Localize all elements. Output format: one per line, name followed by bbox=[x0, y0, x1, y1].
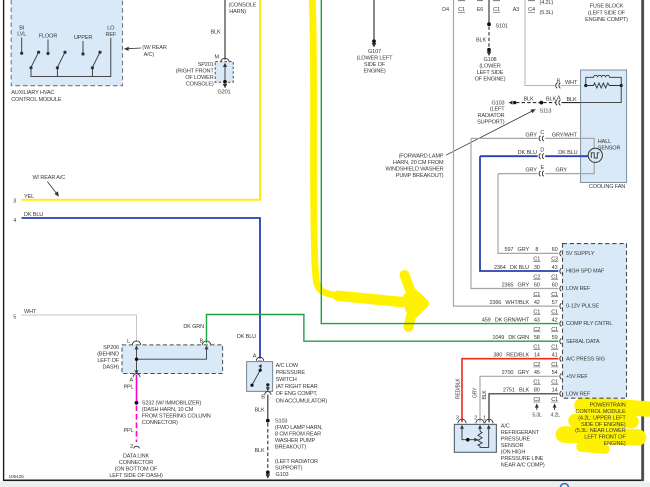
svg-text:A/C: A/C bbox=[501, 423, 510, 429]
wire BLK dashed S113 to connector A bbox=[543, 102, 556, 104]
svg-text:ENGINE COMPT): ENGINE COMPT) bbox=[585, 17, 628, 23]
svg-text:(4.2L): (4.2L) bbox=[540, 0, 554, 6]
wire WHT into fan box bbox=[561, 85, 586, 87]
wire GRY 2700 to sensor pin2 bbox=[480, 376, 558, 422]
svg-text:GRY/WHT: GRY/WHT bbox=[552, 132, 578, 138]
svg-text:60: 60 bbox=[552, 282, 558, 288]
svg-text:(AT RIGHT REAR: (AT RIGHT REAR bbox=[276, 384, 318, 390]
svg-text:(4.2L: UPPER LEFT: (4.2L: UPPER LEFT bbox=[578, 415, 626, 421]
svg-text:43: 43 bbox=[534, 317, 540, 323]
svg-text:2365 GRY: 2365 GRY bbox=[502, 282, 530, 288]
svg-text:LO: LO bbox=[107, 26, 115, 32]
svg-text:SWITCH: SWITCH bbox=[276, 377, 297, 383]
svg-text:14: 14 bbox=[534, 353, 540, 359]
svg-text:FLOOR: FLOOR bbox=[39, 34, 58, 40]
svg-text:DATA LINK: DATA LINK bbox=[123, 453, 150, 459]
svg-text:REF: REF bbox=[105, 32, 116, 38]
svg-text:41: 41 bbox=[552, 353, 558, 359]
ground G103 left arrow bbox=[513, 101, 516, 104]
svg-text:BLK: BLK bbox=[482, 390, 488, 400]
svg-text:G103: G103 bbox=[276, 472, 289, 478]
svg-text:SP201: SP201 bbox=[198, 62, 214, 68]
svg-text:PRESSURE: PRESSURE bbox=[501, 436, 531, 442]
svg-text:43: 43 bbox=[552, 265, 558, 271]
svg-text:5: 5 bbox=[13, 315, 16, 321]
svg-text:COMP RLY CNTRL: COMP RLY CNTRL bbox=[566, 321, 612, 327]
page bottom border bbox=[3, 479, 644, 481]
svg-text:(5.3L: NEAR LOWER: (5.3L: NEAR LOWER bbox=[575, 428, 626, 434]
svg-text:UPPER: UPPER bbox=[74, 35, 93, 41]
svg-text:BLK: BLK bbox=[476, 38, 486, 44]
svg-text:HALL: HALL bbox=[598, 139, 611, 145]
svg-text:(FORWARD LAMP: (FORWARD LAMP bbox=[399, 154, 444, 160]
wire PPL dashed S232 to DLC bbox=[136, 406, 138, 443]
svg-text:(ON BOTTOM OF: (ON BOTTOM OF bbox=[115, 466, 158, 472]
svg-text:OF ENGINE): OF ENGINE) bbox=[475, 77, 506, 83]
svg-text:PPL: PPL bbox=[123, 428, 133, 434]
svg-text:LEFT SIDE OF DASH): LEFT SIDE OF DASH) bbox=[109, 473, 163, 479]
svg-text:HARN): HARN) bbox=[229, 9, 246, 15]
svg-text:GRY: GRY bbox=[556, 168, 568, 174]
svg-text:4.2L: 4.2L bbox=[551, 413, 561, 419]
svg-text:380 RED/BLK: 380 RED/BLK bbox=[493, 353, 529, 359]
svg-text:S232 (W/ IMMOBILIZER): S232 (W/ IMMOBILIZER) bbox=[142, 400, 202, 406]
svg-text:POWERTRAIN: POWERTRAIN bbox=[590, 403, 626, 409]
UPPER contact stub bbox=[82, 41, 84, 53]
svg-text:BLK: BLK bbox=[546, 97, 556, 103]
svg-text:OF ENG COMPT,: OF ENG COMPT, bbox=[276, 391, 318, 397]
svg-text:(ON HIGH: (ON HIGH bbox=[501, 449, 526, 455]
svg-text:30: 30 bbox=[534, 265, 540, 271]
sp201 group bbox=[176, 0, 257, 96]
sp206 group bbox=[97, 339, 222, 384]
svg-text:(W/ REAR: (W/ REAR bbox=[142, 45, 167, 51]
top cut marks bbox=[458, 0, 535, 2]
svg-text:2700 GRY: 2700 GRY bbox=[502, 370, 530, 376]
page left border bbox=[3, 0, 5, 481]
svg-text:REFRIGERANT: REFRIGERANT bbox=[501, 430, 540, 436]
switch arm 1 bbox=[31, 52, 39, 67]
svg-text:SERIAL DATA: SERIAL DATA bbox=[566, 339, 600, 345]
svg-text:BLK: BLK bbox=[523, 97, 533, 103]
svg-text:A/C): A/C) bbox=[144, 52, 155, 58]
svg-text:8 CM FROM REAR: 8 CM FROM REAR bbox=[275, 432, 321, 438]
grounds top group bbox=[357, 0, 628, 179]
svg-text:+5V REF: +5V REF bbox=[566, 374, 588, 380]
row texts and pins bbox=[482, 247, 613, 403]
svg-text:HARN, 20 CM FROM: HARN, 20 CM FROM bbox=[393, 160, 444, 166]
a/c low pressure switch box bbox=[247, 362, 273, 392]
svg-text:LOW REF: LOW REF bbox=[566, 391, 591, 397]
acswitch group bbox=[247, 354, 328, 479]
svg-text:60: 60 bbox=[552, 247, 558, 253]
svg-text:E6: E6 bbox=[477, 7, 484, 13]
svg-text:COOLING FAN: COOLING FAN bbox=[589, 184, 625, 190]
svg-text:B: B bbox=[261, 395, 265, 401]
fan group bbox=[471, 0, 627, 190]
wire BLK dashed G103 to S113 bbox=[516, 102, 540, 104]
wire GRY 597 from hall E bbox=[498, 174, 558, 254]
svg-text:SIDE OF: SIDE OF bbox=[364, 62, 386, 68]
hvac module group bbox=[11, 0, 167, 103]
wire DK BLU 2364 from hall D bbox=[480, 156, 558, 271]
svg-text:57: 57 bbox=[552, 300, 558, 306]
svg-text:BLK: BLK bbox=[566, 97, 576, 103]
bottom arrows 5.3L 4.2L bbox=[536, 406, 538, 410]
svg-text:2364 DK BLU: 2364 DK BLU bbox=[494, 265, 529, 271]
splice S101 bbox=[487, 22, 491, 26]
svg-text:DK BLU: DK BLU bbox=[558, 150, 577, 156]
svg-text:(DASH HARN, 10 CM: (DASH HARN, 10 CM bbox=[142, 407, 194, 413]
svg-text:SIDE OF ENGINE): SIDE OF ENGINE) bbox=[581, 422, 626, 428]
svg-text:2: 2 bbox=[130, 444, 133, 450]
svg-text:D4: D4 bbox=[442, 7, 449, 13]
svg-text:ENGINE): ENGINE) bbox=[363, 68, 385, 74]
rail drop 3 bbox=[91, 68, 93, 77]
svg-text:S103: S103 bbox=[275, 419, 287, 425]
svg-text:(LEFT: (LEFT bbox=[490, 107, 505, 113]
BI LVL contact stub bbox=[21, 38, 23, 53]
svg-text:BLK: BLK bbox=[254, 448, 264, 454]
svg-text:LEFT FRONT OF: LEFT FRONT OF bbox=[584, 435, 626, 441]
svg-text:459 DK GRN/WHT: 459 DK GRN/WHT bbox=[482, 317, 530, 323]
svg-text:A: A bbox=[129, 377, 133, 383]
connector arc A bbox=[256, 357, 263, 361]
hall sensor circle bbox=[588, 148, 602, 162]
wire BLK to G107 bbox=[373, 0, 375, 40]
auxiliary hvac control module box bbox=[11, 0, 122, 86]
svg-text:BREAKOUT): BREAKOUT) bbox=[275, 445, 306, 451]
svg-text:CONTROL MODULE: CONTROL MODULE bbox=[576, 409, 627, 415]
svg-text:WHT: WHT bbox=[565, 80, 578, 86]
wire DK BLU pin4 to A/C low pressure switch bbox=[22, 218, 261, 359]
fan motor node right bbox=[620, 84, 623, 87]
connector arcs 3 2 1 bbox=[458, 419, 466, 423]
svg-text:W/ REAR A/C: W/ REAR A/C bbox=[33, 175, 66, 181]
svg-text:(LOWER: (LOWER bbox=[479, 64, 500, 70]
svg-text:5.3L: 5.3L bbox=[532, 413, 542, 419]
splice wire inside SP201 bbox=[224, 65, 226, 82]
svg-text:B: B bbox=[199, 339, 203, 345]
left wires group bbox=[13, 0, 260, 359]
svg-text:2751 BLK: 2751 BLK bbox=[503, 388, 529, 394]
wire RED/BLK 380 to sensor pin3 bbox=[462, 359, 558, 423]
splice S232 bbox=[135, 401, 139, 405]
splice wires inside SP206 bbox=[137, 347, 207, 371]
connector arc B bbox=[202, 341, 211, 345]
svg-text:CONNECTOR): CONNECTOR) bbox=[142, 420, 178, 426]
svg-text:C: C bbox=[540, 130, 544, 136]
svg-text:CONTROL MODULE: CONTROL MODULE bbox=[11, 97, 62, 103]
switch blade bbox=[252, 370, 260, 385]
svg-text:BI: BI bbox=[19, 25, 25, 31]
svg-text:S101: S101 bbox=[496, 23, 508, 29]
bottom blue logo glyph bbox=[561, 484, 569, 487]
svg-text:1049 DK GRN: 1049 DK GRN bbox=[492, 335, 529, 341]
svg-text:FROM STEERING COLUMN: FROM STEERING COLUMN bbox=[142, 413, 211, 419]
connector arcs A bbox=[556, 100, 561, 105]
wire WHT/BLK 2366 from top bbox=[454, 0, 559, 306]
svg-text:S113: S113 bbox=[539, 109, 551, 115]
row D DK BLU to hall sensor bbox=[480, 155, 538, 157]
svg-text:BLK: BLK bbox=[254, 408, 264, 414]
svg-text:LEFT OF: LEFT OF bbox=[97, 358, 119, 364]
wire BLK dashed S101 to G108 bbox=[488, 27, 490, 49]
highlighter arrowhead bbox=[405, 275, 425, 327]
svg-text:SUPPORT): SUPPORT) bbox=[275, 466, 303, 472]
page right edge bar bbox=[641, 0, 644, 481]
wire inside fan to BLK bbox=[581, 86, 622, 103]
svg-text:LOW REF: LOW REF bbox=[566, 286, 591, 292]
connector arc A bottom bbox=[133, 374, 140, 377]
highlighter vertical stroke with right arrow bbox=[312, 0, 400, 303]
svg-text:3: 3 bbox=[456, 415, 459, 421]
svg-text:M: M bbox=[215, 55, 220, 61]
svg-text:G201: G201 bbox=[218, 90, 231, 96]
rail drop 2 bbox=[56, 68, 58, 77]
svg-text:G108: G108 bbox=[484, 57, 497, 63]
wire BLK switch to S103 bbox=[267, 395, 269, 420]
svg-text:RED/BLK: RED/BLK bbox=[456, 378, 462, 399]
arrow to S113 bbox=[446, 111, 532, 155]
svg-text:(CONSOLE: (CONSOLE bbox=[229, 3, 257, 9]
a/c refrigerant pressure sensor box bbox=[454, 424, 496, 452]
splice box SP201 bbox=[215, 62, 233, 83]
splice S103 bbox=[266, 419, 270, 423]
svg-text:G107: G107 bbox=[368, 49, 381, 55]
svg-text:PRESSURE LINE: PRESSURE LINE bbox=[501, 456, 544, 462]
svg-text:DK BLU: DK BLU bbox=[24, 212, 43, 218]
svg-text:LEFT SIDE: LEFT SIDE bbox=[477, 70, 504, 76]
svg-text:0-12V PULSE: 0-12V PULSE bbox=[566, 304, 599, 310]
svg-text:HIGH SPD MAF: HIGH SPD MAF bbox=[566, 269, 605, 275]
svg-text:(FWD LAMP HARN,: (FWD LAMP HARN, bbox=[275, 425, 323, 431]
svg-text:14: 14 bbox=[552, 388, 558, 394]
svg-text:BLK: BLK bbox=[210, 30, 220, 36]
page bottom gray strip bbox=[0, 482, 650, 487]
svg-text:GRY: GRY bbox=[472, 387, 478, 398]
svg-text:A: A bbox=[253, 354, 257, 360]
wire PPL solid SP206 to S232 bbox=[136, 375, 138, 402]
svg-text:(LEFT SIDE OF: (LEFT SIDE OF bbox=[588, 10, 626, 16]
svg-text:WASHER PUMP: WASHER PUMP bbox=[275, 438, 316, 444]
svg-text:597 GRY: 597 GRY bbox=[505, 247, 530, 253]
svg-text:80: 80 bbox=[534, 388, 540, 394]
row E GRY bbox=[498, 173, 538, 175]
svg-text:42: 42 bbox=[534, 300, 540, 306]
connector arc B bottom bbox=[265, 392, 271, 395]
svg-text:42: 42 bbox=[552, 317, 558, 323]
svg-text:GRY: GRY bbox=[525, 132, 537, 138]
splice box SP206 bbox=[122, 345, 223, 374]
svg-text:3: 3 bbox=[13, 199, 16, 205]
highlighter swipe over PCM caption 3 bbox=[564, 435, 638, 438]
svg-text:SP206: SP206 bbox=[103, 345, 119, 351]
wire from fuse block to connector B bbox=[525, 0, 555, 86]
svg-text:GRY: GRY bbox=[525, 168, 537, 174]
wire DK GRN 1049 from SP206 B bbox=[207, 315, 559, 344]
svg-text:A: A bbox=[557, 96, 561, 102]
svg-text:ON ACCUMULATOR): ON ACCUMULATOR) bbox=[276, 398, 328, 404]
ground arrow G201 bbox=[223, 84, 228, 89]
svg-text:5V SUPPLY: 5V SUPPLY bbox=[566, 251, 595, 257]
switch arm 3 bbox=[92, 52, 100, 67]
ground G107 bbox=[372, 39, 376, 43]
svg-text:FUSE BLOCK: FUSE BLOCK bbox=[590, 4, 624, 10]
fan motor node left bbox=[584, 84, 587, 87]
svg-text:PUMP BREAKOUT): PUMP BREAKOUT) bbox=[396, 173, 444, 179]
C label underlines bbox=[533, 262, 558, 402]
svg-text:A/C PRESS SIG: A/C PRESS SIG bbox=[566, 356, 605, 362]
svg-text:E: E bbox=[541, 165, 545, 171]
wire YEL pin3 bbox=[22, 0, 261, 200]
svg-text:(5.3L): (5.3L) bbox=[540, 10, 554, 16]
svg-text:105425: 105425 bbox=[9, 474, 25, 480]
inductor branch bbox=[586, 75, 621, 85]
highlighter swipe tail bbox=[581, 447, 605, 449]
svg-text:CONNECTOR: CONNECTOR bbox=[119, 460, 153, 466]
wire DK GRN/WHT 459 from top bbox=[321, 0, 558, 324]
svg-text:AUXILIARY HVAC: AUXILIARY HVAC bbox=[11, 90, 54, 96]
svg-text:RADIATOR: RADIATOR bbox=[478, 113, 505, 119]
splice S113 bbox=[539, 101, 543, 105]
svg-text:D: D bbox=[540, 148, 544, 154]
svg-text:LVL: LVL bbox=[17, 32, 26, 38]
svg-text:SUPPORT): SUPPORT) bbox=[477, 119, 505, 125]
highlighter swipe over PCM caption 2 bbox=[575, 421, 632, 422]
svg-text:54: 54 bbox=[552, 370, 558, 376]
wire BLK into fan box bbox=[562, 102, 581, 104]
wire WHT pin5 to SP206 bbox=[22, 315, 137, 342]
svg-text:L: L bbox=[127, 339, 130, 345]
svg-text:DK BLU: DK BLU bbox=[237, 334, 256, 340]
svg-text:PPL: PPL bbox=[123, 385, 133, 391]
svg-text:60: 60 bbox=[534, 282, 540, 288]
row C GRY/WHT bbox=[471, 137, 538, 139]
svg-text:(RIGHT FRONT: (RIGHT FRONT bbox=[176, 69, 215, 75]
svg-text:58: 58 bbox=[534, 335, 540, 341]
sensor group bbox=[454, 378, 545, 469]
highlighter strokes group bbox=[312, 0, 648, 449]
svg-text:SENSOR: SENSOR bbox=[501, 443, 524, 449]
sensor internals bbox=[462, 428, 489, 448]
svg-text:A/C LOW: A/C LOW bbox=[276, 363, 299, 369]
svg-text:SENSOR: SENSOR bbox=[598, 145, 621, 151]
powertrain control module box bbox=[563, 244, 627, 399]
svg-text:WHT: WHT bbox=[24, 309, 37, 315]
highlighter swipe over PCM caption 1 bbox=[582, 406, 648, 410]
svg-text:59: 59 bbox=[552, 335, 558, 341]
svg-text:45: 45 bbox=[534, 370, 540, 376]
svg-text:DK BLU: DK BLU bbox=[518, 150, 537, 156]
ground G103 bottom bbox=[266, 471, 270, 475]
svg-text:8: 8 bbox=[535, 247, 538, 253]
svg-text:DK GRN: DK GRN bbox=[183, 324, 204, 330]
wire BLK console to SP201 bbox=[224, 0, 226, 60]
cooling fan box bbox=[581, 70, 627, 183]
svg-text:2366 WHT/BLK: 2366 WHT/BLK bbox=[489, 300, 529, 306]
dlc group bbox=[109, 375, 210, 479]
resistor element bbox=[586, 83, 621, 88]
wire BLK dashed S103 to G103 bbox=[267, 423, 269, 471]
wire GRY 2365 from hall C bbox=[471, 138, 558, 288]
svg-text:(BEHIND: (BEHIND bbox=[97, 352, 119, 358]
connector arc at SP201 bbox=[221, 58, 230, 62]
svg-text:A3: A3 bbox=[513, 7, 520, 13]
svg-text:(LEFT RADIATOR: (LEFT RADIATOR bbox=[275, 459, 318, 465]
ground G108 bbox=[487, 48, 491, 52]
wire BLK 2751 to sensor pin1 bbox=[489, 394, 558, 423]
switch arm 2 bbox=[57, 52, 65, 67]
svg-text:YEL: YEL bbox=[24, 194, 34, 200]
svg-text:PRESSURE: PRESSURE bbox=[276, 370, 306, 376]
svg-text:(LOWER LEFT: (LOWER LEFT bbox=[357, 55, 393, 61]
common rail wire bbox=[31, 38, 111, 77]
svg-text:G103: G103 bbox=[492, 100, 505, 106]
wire BLK S101 bbox=[488, 0, 490, 24]
FLOOR contact stub bbox=[47, 40, 49, 53]
pcm group bbox=[183, 0, 626, 447]
connector arcs B bbox=[556, 83, 561, 88]
svg-text:4: 4 bbox=[13, 218, 16, 224]
svg-text:DASH): DASH) bbox=[102, 365, 119, 371]
connector arc DLC bbox=[134, 446, 140, 448]
svg-text:NEAR A/C COMP): NEAR A/C COMP) bbox=[501, 462, 545, 468]
svg-text:OF LOWER: OF LOWER bbox=[185, 75, 214, 81]
connector arcs at PCM rows bbox=[560, 251, 562, 397]
connector arc L bbox=[132, 341, 141, 345]
svg-text:CONSOLE): CONSOLE) bbox=[186, 82, 214, 88]
switch terminal B bbox=[266, 383, 269, 386]
svg-text:WINDSHIELD WASHER: WINDSHIELD WASHER bbox=[386, 167, 444, 173]
svg-text:ENGINE): ENGINE) bbox=[604, 441, 626, 447]
